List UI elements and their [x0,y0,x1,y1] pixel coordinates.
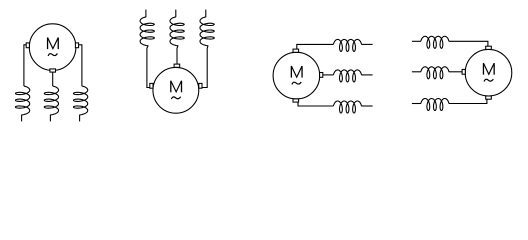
terminal U2 left [150,83,153,88]
motor U1 circle [29,24,76,71]
inductor L3 [74,86,88,115]
inductor L1 [16,86,30,115]
wire D3 bottom terminal to coil L9 [298,102,333,106]
terminal U3 right [320,73,323,78]
terminal U4 left [462,69,465,74]
wire D2 coil L5 to top terminal [177,45,178,64]
wire D2 coil L6 to right terminal [202,45,208,87]
inductor L11 [421,67,449,79]
motor U4 letter M [483,63,494,75]
inductor L4 [140,17,154,46]
inductor L9 [333,101,361,113]
inductor L8 [333,70,361,82]
wire D4 coil L12 to bottom terminal [449,99,487,104]
wire D1 right terminal to coil L3 [79,45,82,86]
wire L9 right stub [361,105,372,107]
motor U2 circle [153,67,199,113]
motor U4 circle [465,49,512,96]
terminal U3 top [293,49,299,52]
wire L7 right stub [361,43,372,45]
wire L11 left stub [412,71,421,73]
wire D1 left terminal to coil L1 [24,45,26,86]
wire D4 coil L10 to top terminal [449,41,488,46]
motor U1 letter M [48,38,59,50]
inductor L6 [200,17,214,46]
wire L2 bottom stub [49,115,51,122]
wire D2 coil L4 to left terminal [147,45,150,87]
wire D3 top terminal to coil L7 [297,44,334,49]
terminal U3 bottom [293,99,299,102]
wire L8 right stub [361,74,372,76]
wire L3 bottom stub [79,115,81,122]
terminal U1 left [26,43,29,48]
wire L10 left stub [412,40,421,42]
wire D1 bottom terminal to coil L2 [52,72,54,87]
motor U4 tilde [484,79,493,81]
terminal U1 bottom [50,69,56,72]
motor U2 tilde [171,97,180,99]
inductor L7 [333,39,361,51]
wire D4 coil L11 to left terminal [449,71,463,73]
wire D3 right terminal to coil L8 [323,74,334,76]
inductor L5 [170,17,184,46]
terminal U1 right [75,43,78,48]
wire L5 top stub [175,10,177,18]
terminal U4 top [486,46,492,49]
motor U2 letter M [171,81,182,93]
motor U1 tilde [48,54,57,56]
inductor L10 [421,36,449,48]
wire L12 left stub [412,103,421,105]
terminal U2 top [174,64,180,67]
inductor L2 [44,86,58,115]
motor U3 circle [273,52,320,99]
motor U3 tilde [292,82,301,84]
wire L1 bottom stub [21,115,23,122]
wire L6 top stub [205,10,207,18]
terminal U2 right [199,83,202,88]
wire L4 top stub [145,10,147,18]
motor U3 letter M [291,66,302,78]
inductor L12 [421,99,449,111]
terminal U4 bottom [486,96,492,99]
